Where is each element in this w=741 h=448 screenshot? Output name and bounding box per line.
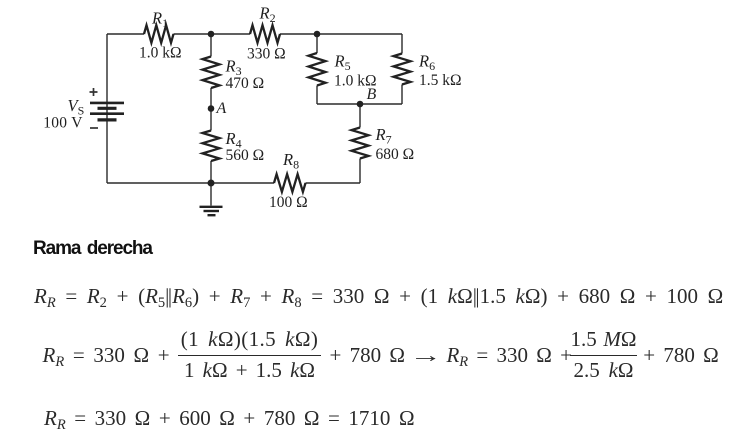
- svg-text:100 Ω: 100 Ω: [269, 194, 308, 211]
- fraction 1 bar: [178, 355, 321, 356]
- svg-text:R1: R1: [151, 9, 168, 31]
- wire R4 bottom stem: [210, 161, 212, 183]
- equation line 2 part b: [330, 342, 572, 368]
- resistor R1: [144, 25, 174, 43]
- wire right rail R6 column: [401, 34, 403, 104]
- wire bottom rail: [107, 182, 274, 184]
- svg-text:470 Ω: 470 Ω: [226, 75, 265, 92]
- svg-text:A: A: [216, 100, 227, 117]
- resistor R6: [394, 54, 411, 85]
- fraction 1 numerator: [178, 326, 321, 352]
- resistor R4: [203, 131, 220, 162]
- ground: [200, 207, 223, 215]
- wire R7 stems: [359, 104, 361, 183]
- wire R5 stems: [316, 34, 318, 104]
- svg-text:330 Ω: 330 Ω: [247, 46, 286, 63]
- svg-text:100 V: 100 V: [43, 115, 83, 132]
- resistor R2: [250, 25, 280, 43]
- svg-text:R5: R5: [334, 52, 351, 74]
- heading Rama derecha: [33, 238, 152, 260]
- resistor R5: [309, 53, 326, 86]
- svg-text:B: B: [367, 86, 377, 103]
- wire between R1 and node: [174, 33, 251, 35]
- wire R3 stems: [210, 34, 212, 131]
- equation line 2 part a: [43, 342, 170, 368]
- battery VS: [90, 103, 124, 120]
- svg-text:R8: R8: [282, 150, 299, 172]
- fraction 2 bar: [570, 355, 637, 356]
- svg-text:R7: R7: [375, 125, 392, 147]
- resistor R7: [352, 128, 369, 159]
- node B: [357, 101, 364, 108]
- svg-text:R6: R6: [418, 52, 435, 74]
- fraction 2 denominator: [570, 357, 637, 383]
- equation line 2 part c: [643, 342, 718, 368]
- svg-text:1.5 kΩ: 1.5 kΩ: [419, 72, 462, 89]
- ground stem: [210, 183, 212, 206]
- wire parallel bottom rail: [317, 103, 402, 105]
- resistor R3: [203, 57, 220, 89]
- node dot top right: [314, 31, 321, 38]
- equation line 1: [34, 283, 723, 309]
- svg-text:680 Ω: 680 Ω: [376, 146, 415, 163]
- wire bottom rail right of R8: [306, 182, 361, 184]
- svg-text:1.0 kΩ: 1.0 kΩ: [139, 45, 182, 62]
- node bottom: [208, 180, 215, 187]
- wire between R2 and node / to right corner: [280, 33, 402, 35]
- svg-text:R2: R2: [259, 4, 276, 26]
- plus sign: [90, 88, 98, 96]
- wire left rail: [106, 34, 108, 183]
- resistor R8: [274, 174, 306, 192]
- node A: [208, 105, 215, 112]
- wire top rail left segment: [107, 33, 144, 35]
- equation line 3: [44, 405, 415, 431]
- fraction 2 numerator: [570, 326, 637, 352]
- circuit schematic: [0, 0, 741, 232]
- fraction 1 denominator: [178, 357, 321, 383]
- svg-text:560 Ω: 560 Ω: [226, 147, 265, 164]
- minus sign: [90, 127, 98, 129]
- node dot top left: [208, 31, 215, 38]
